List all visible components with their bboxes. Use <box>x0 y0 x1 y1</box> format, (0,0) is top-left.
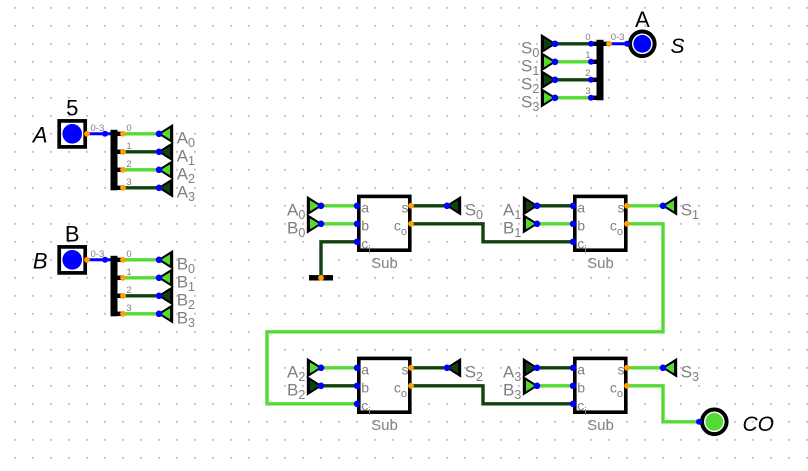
bus wire S <box>609 42 630 45</box>
tunnel B0 ref <box>287 214 324 240</box>
subtractor Sub1 <box>354 196 414 272</box>
svg-text:2: 2 <box>126 159 131 170</box>
tunnel A0 <box>156 124 195 150</box>
svg-text:5: 5 <box>66 96 78 121</box>
tunnel B0 <box>156 250 195 276</box>
svg-text:A: A <box>31 123 48 148</box>
wire <box>123 276 159 279</box>
svg-text:1: 1 <box>126 267 131 278</box>
wire <box>123 312 159 315</box>
wire <box>123 150 159 153</box>
bus wire A <box>87 132 111 135</box>
wire <box>537 366 573 369</box>
svg-text:0: 0 <box>126 249 131 260</box>
wire <box>123 168 159 171</box>
wire carry c2 <box>267 224 663 404</box>
tunnel A0 ref <box>287 196 324 222</box>
svg-text:0-3: 0-3 <box>611 32 625 43</box>
tunnel S0 source <box>521 34 558 60</box>
wire <box>627 204 663 207</box>
wire <box>123 132 159 135</box>
wire <box>537 384 573 387</box>
wire <box>411 366 447 369</box>
svg-text:CO: CO <box>743 413 775 436</box>
wire <box>411 204 447 207</box>
wire <box>537 222 573 225</box>
svg-text:3: 3 <box>585 86 590 97</box>
wire <box>555 96 591 99</box>
wire to ground <box>321 242 357 278</box>
wire carry out CO <box>627 386 699 422</box>
svg-text:b: b <box>577 379 585 395</box>
tunnel A3 ref <box>503 358 540 384</box>
svg-text:Sub: Sub <box>587 417 614 434</box>
merger S 4-1 <box>585 32 624 101</box>
wire <box>537 204 573 207</box>
wire <box>123 186 159 189</box>
tunnel B1 <box>156 268 195 294</box>
tunnel B1 ref <box>503 214 540 240</box>
tunnel A2 <box>156 160 195 186</box>
svg-text:s: s <box>402 361 409 377</box>
wire <box>321 204 357 207</box>
subtractor Sub2 <box>570 196 630 272</box>
svg-text:B: B <box>33 249 48 274</box>
svg-text:a: a <box>577 361 585 377</box>
output S <box>624 7 685 58</box>
splitter B 1-4 <box>91 249 132 316</box>
wire <box>321 366 357 369</box>
tunnel B2 ref <box>287 376 324 402</box>
wire <box>627 366 663 369</box>
splitter A 1-4 <box>91 123 132 191</box>
ground <box>309 275 333 281</box>
svg-text:Sub: Sub <box>371 255 398 272</box>
subtractor Sub4 <box>570 358 630 434</box>
svg-text:s: s <box>618 199 625 215</box>
tunnel S1 source <box>521 52 558 78</box>
subtractor Sub3 <box>354 358 414 434</box>
svg-text:0-3: 0-3 <box>91 123 105 134</box>
svg-text:0-3: 0-3 <box>91 249 105 260</box>
svg-text:A: A <box>635 7 650 32</box>
tunnel B3 <box>156 304 195 330</box>
bus wire B <box>87 258 111 261</box>
svg-text:2: 2 <box>126 285 131 296</box>
tunnel S1 <box>660 196 699 222</box>
svg-text:b: b <box>577 217 585 233</box>
wire <box>123 294 159 297</box>
tunnel A1 <box>156 142 195 168</box>
svg-text:1: 1 <box>585 50 590 61</box>
svg-text:0: 0 <box>126 123 131 134</box>
wire <box>123 258 159 261</box>
input B <box>33 222 90 274</box>
wire carry c3 <box>411 386 573 404</box>
svg-text:3: 3 <box>126 303 131 314</box>
wire <box>555 78 591 81</box>
tunnel A3 <box>156 178 195 204</box>
svg-text:a: a <box>577 199 585 215</box>
svg-text:b: b <box>361 217 369 233</box>
svg-text:s: s <box>618 361 625 377</box>
svg-text:0: 0 <box>585 32 590 43</box>
svg-text:1: 1 <box>126 141 131 152</box>
output CO <box>696 410 774 437</box>
wire <box>555 60 591 63</box>
tunnel B3 ref <box>503 376 540 402</box>
svg-text:S: S <box>671 35 685 58</box>
svg-text:Sub: Sub <box>371 417 398 434</box>
svg-text:Sub: Sub <box>587 255 614 272</box>
wire <box>555 42 591 45</box>
svg-text:b: b <box>361 379 369 395</box>
svg-text:a: a <box>361 361 369 377</box>
svg-text:2: 2 <box>585 68 590 79</box>
wire carry c1 <box>411 224 573 242</box>
tunnel S2 <box>444 358 483 384</box>
svg-text:B: B <box>65 222 80 247</box>
svg-text:a: a <box>361 199 369 215</box>
wire <box>321 384 357 387</box>
wire <box>321 222 357 225</box>
tunnel S0 <box>444 196 483 222</box>
svg-text:s: s <box>402 199 409 215</box>
tunnel S3 source <box>521 88 558 114</box>
tunnel S2 source <box>521 70 558 96</box>
svg-text:3: 3 <box>126 177 131 188</box>
tunnel A2 ref <box>287 358 324 384</box>
tunnel B2 <box>156 286 195 312</box>
input A <box>31 96 90 148</box>
tunnel A1 ref <box>503 196 540 222</box>
tunnel S3 <box>660 358 699 384</box>
